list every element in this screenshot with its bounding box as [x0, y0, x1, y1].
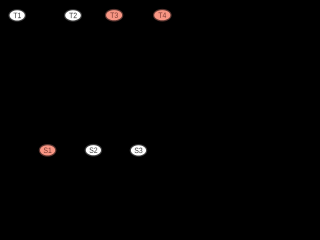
- node T3: [106, 10, 123, 21]
- node T1: [9, 10, 25, 21]
- node S2: [85, 145, 101, 156]
- node T2: [65, 10, 82, 21]
- node S1: [39, 145, 55, 156]
- node S3: [130, 145, 146, 156]
- node T4: [154, 10, 171, 21]
